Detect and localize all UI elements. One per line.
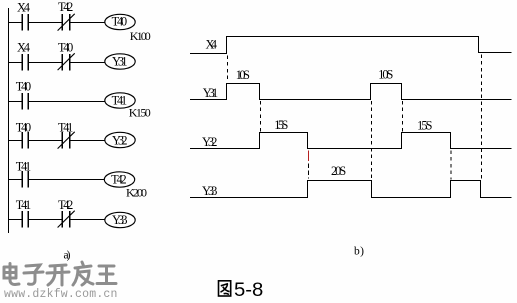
watermark hanzi 子 [24, 265, 43, 284]
dashed guide Y31 rise 2 / Y33 fall [371, 101, 373, 180]
coil T42 (timer, K200) [104, 172, 134, 187]
svg-text:Y33: Y33 [112, 213, 128, 227]
wire contact T41 to coil T42 [29, 179, 105, 181]
dashed guide X4 fall / Y33 fall 2 [481, 55, 483, 180]
rung 3 wire: rail to contact T40 [9, 101, 22, 103]
svg-text:X4: X4 [206, 37, 218, 51]
svg-text:X4: X4 [17, 0, 30, 14]
svg-text:T42: T42 [58, 198, 73, 212]
hanzi 图 inner strokes [221, 284, 230, 295]
dashed guide X4 rise to Y31 rise [227, 56, 229, 83]
waveform X4: low, rise, high, fall, low [190, 37, 512, 54]
svg-text:20S: 20S [331, 164, 346, 178]
svg-text:T40: T40 [16, 80, 31, 94]
watermark hanzi 发 [73, 262, 93, 285]
timing diagram b) waveforms [190, 37, 512, 198]
svg-text:T42: T42 [111, 173, 127, 187]
coil Y31 [105, 54, 135, 69]
svg-text:T40: T40 [16, 120, 31, 134]
wire contact T42 to coil Y33 [70, 219, 104, 221]
svg-text:Y32: Y32 [112, 134, 128, 148]
svg-text:b): b) [354, 245, 364, 257]
svg-text:Y32: Y32 [202, 135, 217, 149]
rung 1 wire: rail to contact X4 [9, 22, 22, 24]
watermark url www.dzkfw.com.cn [4, 288, 118, 301]
svg-text:T41: T41 [58, 120, 73, 134]
svg-text:Y31: Y31 [203, 86, 218, 100]
contact T42 (NC) rung 6 [58, 211, 75, 228]
coil T40 (timer, K100) [105, 14, 135, 29]
coil Y32 [105, 132, 135, 147]
wire contact T41 to coil Y32 [70, 140, 104, 142]
watermark 电子开发王 (gray calligraphic) [4, 262, 116, 285]
svg-text:a): a) [64, 249, 71, 261]
caption 图5-8 : hanzi drawn as strokes [219, 281, 231, 296]
svg-text:K150: K150 [129, 106, 151, 120]
wire contact T41 to contact T42 [29, 219, 62, 221]
svg-text:T40: T40 [112, 15, 128, 29]
svg-text:10S: 10S [236, 68, 250, 82]
coil Y33 [105, 212, 135, 227]
dashed guide Y32 fall 2 to Y33 rise 2 [450, 151, 452, 180]
rung 4 wire: rail to contact T40 [9, 140, 22, 142]
svg-text:K100: K100 [130, 29, 151, 43]
svg-text:5-8: 5-8 [234, 280, 263, 301]
dashed guide Y32 fall to Y33 rise (black part) [308, 164, 310, 179]
contact T41 (NO) rung 6 [22, 211, 28, 228]
svg-text:X4: X4 [17, 40, 30, 54]
watermark hanzi 电 [4, 264, 19, 285]
svg-text:T40: T40 [58, 40, 73, 54]
wire contact T40 to coil Y31 [70, 62, 104, 64]
contact T40 (NO) rung 4 [22, 132, 28, 148]
left power rail [8, 8, 10, 233]
coil T41 (timer, K150) [105, 93, 135, 108]
waveform Y32: pulse 15S, pulse 15S [190, 133, 512, 149]
dashed guide Y31 fall 2 to Y32 rise 2 [402, 101, 404, 132]
svg-text:15S: 15S [417, 119, 432, 133]
contact T40 (NO) rung 3 [22, 93, 28, 109]
rung 2 wire: rail to contact X4 [9, 62, 22, 64]
svg-text:T41: T41 [16, 160, 31, 174]
contact T41 (NO) rung 5 [22, 171, 28, 187]
wire contact X4 to contact T42 [29, 22, 62, 24]
wire contact X4 to contact T40 [29, 62, 62, 64]
wire contact T40 to contact T41 [29, 140, 62, 142]
watermark hanzi 开 [47, 265, 69, 285]
wire contact T42 to coil T40 [70, 22, 104, 24]
contact T41 (NC) rung 4 [58, 132, 75, 149]
contact X4 (NO) rung 1 [22, 14, 28, 30]
svg-text:Y33: Y33 [202, 184, 217, 198]
watermark hanzi 王 [97, 266, 116, 284]
svg-text:T42: T42 [58, 0, 73, 14]
rung 6 wire: rail to contact T41 [9, 219, 22, 221]
contact T40 (NC) rung 2 [58, 53, 75, 70]
svg-text:T41: T41 [112, 94, 128, 108]
waveform Y33: pulse 20S, pulse [190, 181, 512, 198]
svg-text:Y31: Y31 [112, 55, 128, 69]
hanzi 图 box [219, 281, 231, 296]
svg-text:15S: 15S [274, 118, 288, 132]
wire contact T40 to coil T41 [29, 101, 105, 103]
contact X4 (NO) rung 2 [22, 54, 28, 70]
contact T42 (NC) rung 1 [58, 14, 75, 31]
dashed guide Y31 fall to Y32 rise [260, 101, 262, 132]
dashed guide Y32 fall to Y33 rise (red) [308, 151, 310, 162]
svg-text:K200: K200 [126, 186, 147, 200]
waveform Y31: pulse 10S, pulse 10S [190, 84, 512, 100]
svg-text:T41: T41 [16, 198, 31, 212]
svg-text:10S: 10S [378, 68, 393, 82]
rung 5 wire: rail to contact T41 [9, 179, 22, 181]
